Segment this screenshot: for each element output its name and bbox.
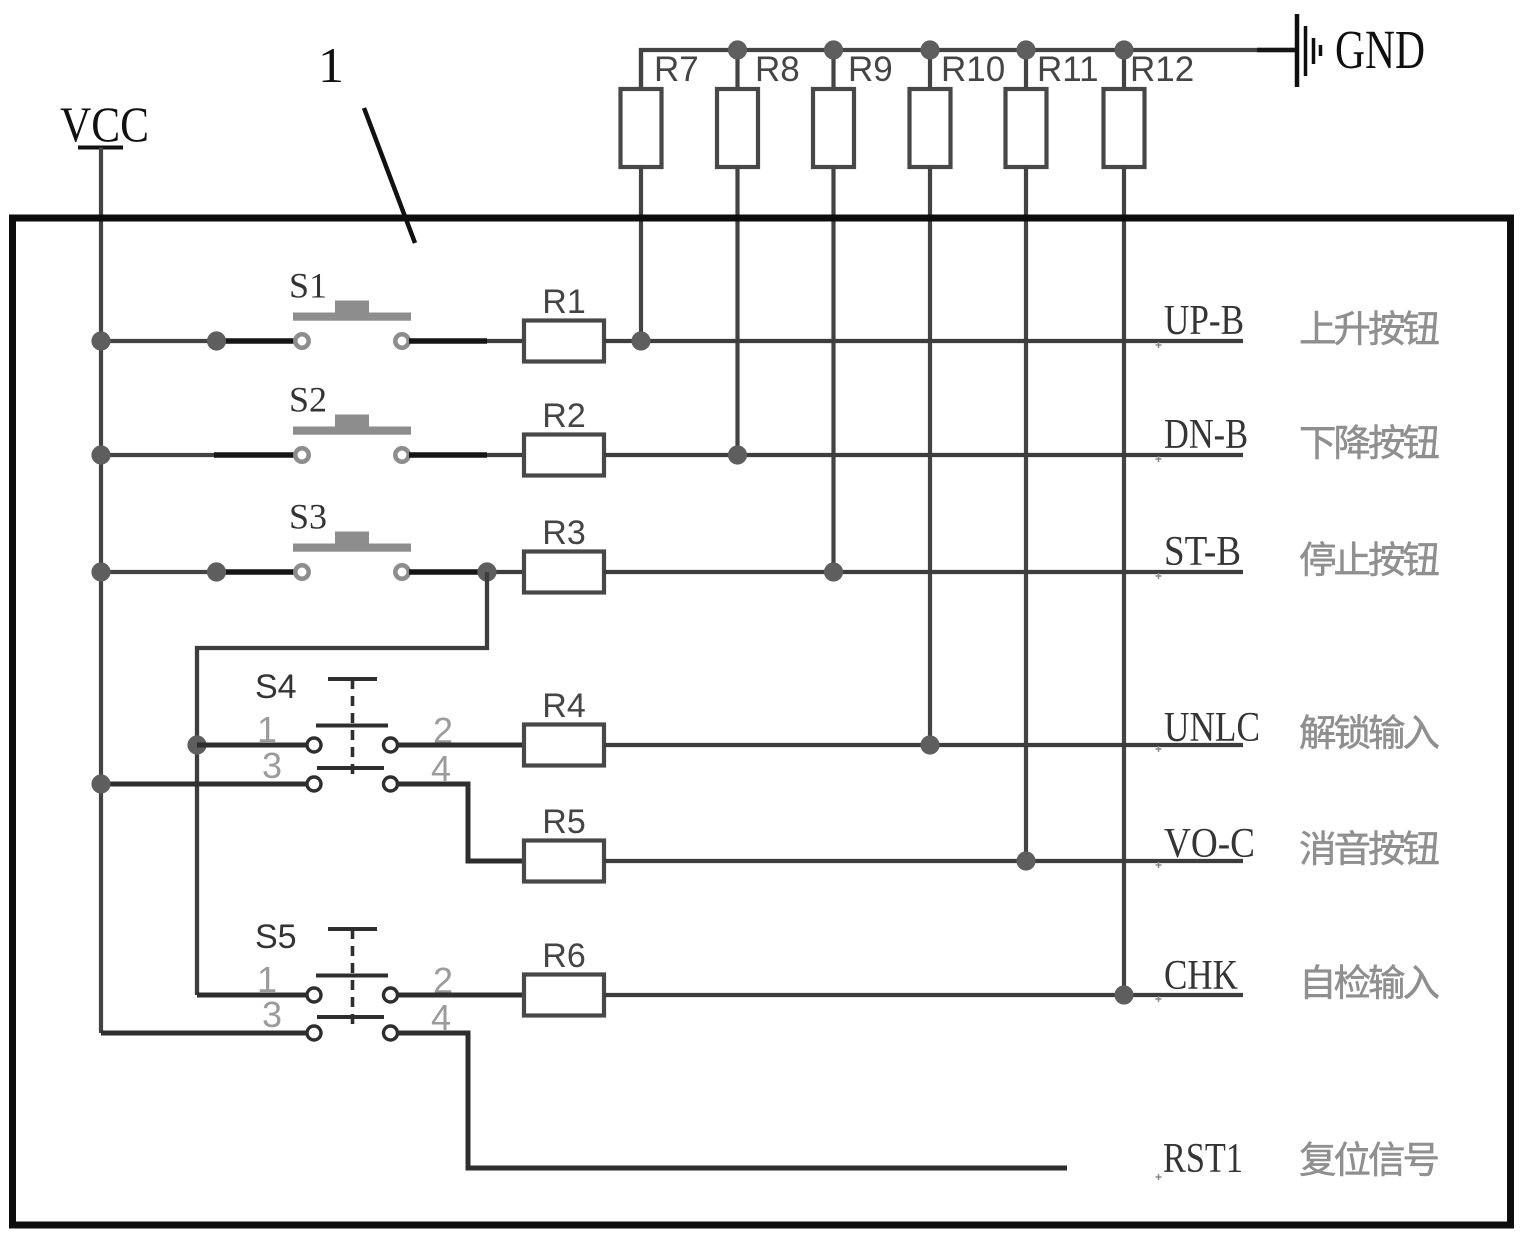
svg-text:RST1: RST1 [1163,1136,1243,1182]
svg-text:S4: S4 [255,668,297,706]
svg-text:R9: R9 [848,50,893,89]
svg-text:VO-C: VO-C [1164,821,1255,867]
svg-text:R6: R6 [542,937,585,975]
svg-text:R12: R12 [1130,50,1194,89]
svg-text:1: 1 [318,37,344,93]
svg-text:S5: S5 [255,918,297,956]
svg-text:S2: S2 [289,380,327,420]
svg-text:DN-B: DN-B [1164,412,1248,458]
svg-text:GND: GND [1335,19,1425,80]
svg-text:3: 3 [262,994,282,1035]
svg-text:UP-B: UP-B [1164,298,1244,344]
svg-text:R5: R5 [542,803,585,841]
svg-text:R1: R1 [542,283,585,321]
svg-text:R2: R2 [542,397,585,435]
svg-text:R3: R3 [542,514,585,552]
svg-text:R7: R7 [654,50,699,89]
svg-text:UNLC: UNLC [1164,705,1260,751]
svg-text:CHK: CHK [1164,953,1238,999]
svg-text:R10: R10 [941,50,1005,89]
svg-text:VCC: VCC [60,96,149,152]
svg-text:R4: R4 [542,687,585,725]
svg-text:R11: R11 [1037,50,1099,89]
svg-text:S1: S1 [289,266,327,306]
svg-text:ST-B: ST-B [1164,529,1241,575]
svg-text:3: 3 [262,745,282,786]
svg-text:S3: S3 [289,497,327,537]
svg-text:1: 1 [257,709,277,750]
svg-text:R8: R8 [755,50,800,89]
